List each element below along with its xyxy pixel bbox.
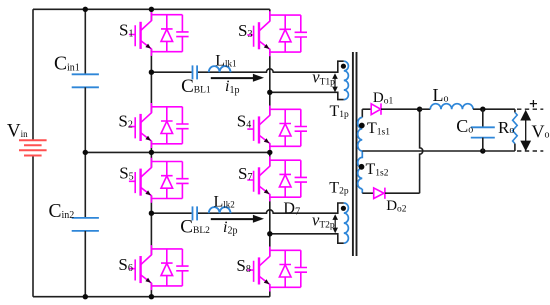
diode Do1 — [362, 108, 371, 110]
inductor Lo — [430, 104, 473, 110]
wire bridge leg A (S1/S2/S5/S6) — [150, 9, 152, 296]
wire upper bridge output B (S3/S4 node to T1p bottom) — [270, 92, 344, 99]
node top rail / S1 — [149, 7, 154, 12]
node bottom rail / Cin2 — [83, 294, 88, 299]
wire left column bottom (Vin to bottom rail) — [32, 156, 34, 297]
wire snubber loop of S8 — [270, 246, 301, 291]
node S7-S8 midpoint — [267, 231, 272, 236]
winding T1p (primary 1) — [344, 61, 349, 99]
winding T1s2 (secondary 2) — [358, 151, 363, 189]
battery Vin — [19, 140, 47, 155]
wire upper bridge output A (S1/S2 node to T1p top) — [151, 61, 343, 72]
anti-parallel diode of S1 — [161, 15, 173, 52]
inductor Llk1 — [209, 66, 231, 72]
node S3-S4 midpoint — [267, 90, 272, 95]
transistor S2 (IGBT) — [129, 107, 152, 144]
capacitor Cin1 — [84, 9, 86, 74]
wire Do2 riser (with hop over centre-tap wire) — [420, 109, 423, 193]
anti-parallel diode of S7 — [279, 160, 291, 197]
wire lower bridge output A (S5/S6 node to T2p top) — [151, 203, 343, 213]
node S1-S2 midpoint — [149, 70, 154, 75]
polarity dot T1p — [341, 64, 346, 69]
transistor S1 (IGBT) — [129, 15, 152, 52]
capacitor Cin2 — [84, 152, 86, 218]
label + (output polarity) — [530, 100, 537, 107]
capacitor Co — [482, 109, 484, 127]
wire centre tap to Ro (bottom rail) — [362, 150, 515, 152]
node Co bottom — [480, 148, 485, 153]
wire Lo to Ro (top) — [473, 108, 515, 110]
polarity dot T1s2 — [359, 164, 365, 170]
node mid rail / Cin — [83, 150, 88, 155]
snubber capacitor of S4 — [295, 109, 307, 146]
resistor Ro — [514, 109, 516, 112]
snubber capacitor of S7 — [295, 160, 307, 197]
wire snubber loop of S3 — [270, 11, 301, 56]
anti-parallel diode of S8 — [279, 250, 291, 287]
wire snubber loop of S5 — [151, 158, 182, 203]
arrow i1p — [211, 77, 255, 79]
arrow i2p — [211, 218, 255, 220]
wire snubber loop of S6 — [151, 245, 182, 290]
inductor Llk2 — [209, 207, 231, 213]
wire top rail — [33, 8, 270, 10]
transistor S8 (IGBT) — [247, 250, 270, 287]
node Co top — [480, 107, 485, 112]
snubber capacitor of S8 — [295, 250, 307, 287]
anti-parallel diode of S6 — [161, 249, 173, 286]
anti-parallel diode of S2 — [161, 107, 173, 144]
anti-parallel diode of S5 — [161, 162, 173, 199]
snubber capacitor of S3 — [295, 15, 307, 52]
node bottom rail / S6 — [149, 294, 154, 299]
dashed lead bottom — [517, 150, 543, 152]
polarity dot T2p — [341, 206, 346, 211]
node S5-S6 midpoint — [149, 211, 154, 216]
anti-parallel diode of S3 — [279, 15, 291, 52]
capacitor CBL2 — [193, 206, 198, 220]
capacitor CBL1 — [193, 65, 198, 79]
wire snubber loop of S1 — [151, 11, 182, 56]
transistor S5 (IGBT) — [129, 162, 152, 199]
diode Do2 — [362, 192, 373, 194]
arrow vT2p — [334, 218, 336, 230]
snubber capacitor of S1 — [176, 15, 188, 52]
wire lower bridge output B (S7/S8 node to T2p bottom) — [270, 234, 344, 243]
wire mid rail — [85, 151, 269, 153]
dashed lead top — [517, 108, 543, 110]
snubber capacitor of S2 — [176, 107, 188, 144]
transistor S4 (IGBT) — [247, 109, 270, 146]
transformer core — [352, 52, 354, 256]
wire snubber loop of S7 — [270, 156, 301, 201]
winding T1s1 (secondary 1) — [358, 117, 363, 151]
wire bridge leg B (S3/S4/S7/S8) — [269, 9, 271, 296]
wire left column top (Vin to top rail) — [32, 9, 34, 140]
winding T2p (primary 2) — [344, 203, 349, 243]
transistor S3 (IGBT) — [247, 15, 270, 52]
node top rail / Cin1 — [83, 7, 88, 12]
transistor S6 (IGBT) — [129, 249, 152, 286]
anti-parallel diode of S4 — [279, 109, 291, 146]
wire T1s1 top lead to Do1 — [361, 109, 363, 117]
snubber capacitor of S5 — [176, 162, 188, 199]
node mid rail / S2-S5 — [149, 150, 154, 155]
wire snubber loop of S4 — [270, 106, 301, 151]
snubber capacitor of S6 — [176, 249, 188, 286]
polarity dot T1s1 — [359, 123, 365, 129]
arrow Vo — [525, 115, 527, 146]
node rectifier output — [417, 107, 422, 112]
arrow vT1p — [334, 77, 336, 89]
transistor S7 (IGBT) — [247, 160, 270, 197]
wire rectifier node to Lo — [420, 108, 431, 110]
wire snubber loop of S2 — [151, 103, 182, 148]
wire bottom rail — [33, 296, 270, 298]
node mid rail / S4-S7 — [267, 150, 272, 155]
